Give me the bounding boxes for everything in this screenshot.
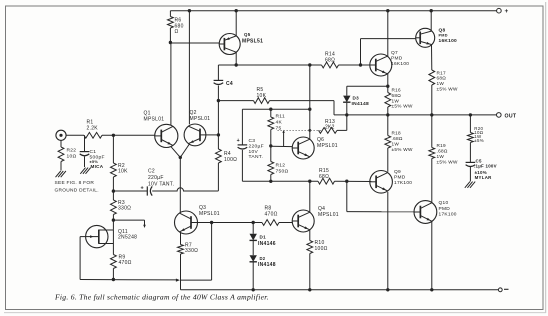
label Q2 [190, 110, 211, 122]
svg-text:D3: D3 [353, 95, 360, 100]
label R19 [437, 143, 458, 165]
wire D3 to OUT line [346, 103, 348, 115]
wire node D down to feedback node [181, 223, 212, 281]
wire R22 to ground [60, 162, 62, 171]
svg-text:1W: 1W [437, 81, 445, 86]
svg-text:10V: 10V [249, 149, 259, 155]
wire bottom negative supply rail [181, 289, 499, 291]
svg-text:750Ω: 750Ω [276, 169, 289, 175]
wire R11 to base node [270, 130, 272, 162]
svg-text:PMD: PMD [439, 206, 451, 212]
label Q4 [318, 206, 339, 218]
label Q1 [144, 111, 165, 123]
wire R4 down to C2 line [217, 163, 219, 191]
resistor R12 [268, 162, 274, 175]
label R6 [175, 18, 184, 36]
svg-text:IN4146: IN4146 [258, 241, 276, 247]
wire R10 to rail [309, 254, 311, 290]
wire C4 to R5 node [217, 86, 219, 101]
svg-text:MPSL01: MPSL01 [317, 143, 338, 149]
label Q8 [439, 28, 458, 44]
resistor R1 [84, 132, 102, 138]
svg-text:16K100: 16K100 [439, 38, 458, 44]
wire input to R1 [66, 134, 84, 136]
transistor Q7 PMD 16K100 [370, 54, 392, 76]
resistor R5 [254, 98, 270, 104]
wire Q6 base wire [271, 145, 293, 147]
svg-text:10K: 10K [118, 169, 128, 175]
svg-text:±5% WW: ±5% WW [437, 87, 458, 92]
svg-text:.1µF 100V: .1µF 100V [474, 163, 497, 168]
node R12 bottom junction [269, 180, 272, 183]
label C5 [474, 158, 497, 180]
svg-text:TANT.: TANT. [249, 154, 264, 160]
wire corner to C4 [217, 65, 219, 80]
svg-text:.68Ω: .68Ω [437, 149, 448, 154]
label Q10 [439, 200, 457, 217]
node R11 top junction [269, 108, 272, 111]
transistor Q6 MPSL01 [292, 137, 314, 159]
node R10 rail junction [308, 288, 311, 291]
node D1 top junction [252, 221, 255, 224]
node Q10 emitter rail junction [430, 288, 433, 291]
label R17 [437, 70, 458, 91]
label Q11 [118, 229, 137, 241]
svg-text:±5% WW: ±5% WW [437, 160, 458, 165]
svg-text:Q9: Q9 [394, 169, 401, 175]
svg-text:68Ω: 68Ω [325, 57, 335, 63]
wire bias line y65 [218, 64, 321, 66]
label Q9 [394, 169, 412, 186]
resistor R8 [262, 220, 279, 226]
svg-text:100Ω: 100Ω [315, 246, 328, 252]
resistor R14 [322, 62, 339, 68]
svg-text:Ω: Ω [175, 29, 179, 35]
wire Q4 emitter to R10 [309, 230, 311, 241]
node R6 bottom / Q5 base junction [169, 41, 172, 44]
wire R19 to Q10 collector [431, 159, 433, 203]
wire Q10 base drop [347, 181, 415, 212]
label R7 [185, 242, 198, 254]
transistor Q4 MPSL01 [292, 210, 314, 232]
terminal OUT [497, 113, 517, 120]
wire R2 to node B [112, 177, 114, 200]
label R3 [118, 200, 131, 212]
svg-text:330Ω: 330Ω [118, 206, 131, 212]
page edge shadow bottom [4, 312, 546, 314]
transistor Q9 PMD 17K100 [370, 171, 393, 194]
diode D1 IN4146 [250, 234, 257, 241]
diode D3 IN4148 [343, 96, 350, 103]
terminal - supply [498, 288, 508, 292]
svg-text:MICA: MICA [91, 164, 104, 169]
resistor R4 [216, 149, 222, 163]
wire R11 wiper stub [282, 130, 284, 147]
svg-text:Q7: Q7 [391, 50, 398, 56]
label Q7 [391, 50, 409, 67]
wire node C feedback stub [113, 220, 144, 225]
node Q7 base / Q8 drop junction [359, 63, 362, 66]
label R18 [392, 131, 413, 153]
arrow feedback into R7 node [176, 279, 180, 282]
ground input [56, 171, 66, 177]
transistor Q10 PMD 17K100 [414, 201, 437, 224]
resistor R18 [385, 136, 391, 149]
svg-text:100Ω: 100Ω [224, 157, 237, 163]
resistor R15 [318, 178, 335, 184]
node Q7 emitter / D3 junction [386, 85, 389, 88]
label D1 [258, 235, 276, 247]
node R5/C4 junction [217, 99, 220, 102]
wire Q1 emitter to tail [171, 147, 180, 158]
node tail junction Q1/Q2 emitters [179, 156, 182, 159]
svg-text:10Ω: 10Ω [67, 153, 77, 159]
label C3 [249, 138, 264, 160]
wire C5 to ground [469, 167, 471, 181]
wire C1 stem [84, 135, 86, 151]
svg-text:IN4148: IN4148 [258, 262, 276, 268]
svg-text:MPSL51: MPSL51 [242, 39, 263, 45]
ground C1 [80, 168, 90, 174]
arrow feedback stub [143, 225, 146, 228]
svg-text:D1: D1 [260, 235, 267, 240]
node Q5 emitter rail junction [235, 9, 238, 12]
wire node D to R8 [212, 222, 262, 224]
node Q5 collector junction [235, 63, 238, 66]
svg-text:1W: 1W [392, 98, 400, 103]
wire R20 to C5 [469, 143, 471, 163]
node bias line junction [308, 108, 311, 111]
svg-text:Q5: Q5 [244, 32, 251, 37]
label R22 [67, 148, 77, 160]
svg-text:16K100: 16K100 [391, 61, 409, 67]
wire OUT line [334, 114, 497, 116]
wire bias line y109 [242, 108, 309, 110]
svg-text:R19: R19 [437, 143, 447, 148]
capacitor C5 [466, 162, 476, 166]
svg-text:GROUND DETAIL.: GROUND DETAIL. [55, 188, 99, 194]
wire R18 to Q9 collector [387, 148, 389, 172]
node Q8 collector rail junction [430, 9, 433, 12]
node R9/feedback junction [112, 278, 115, 281]
resistor R11 [268, 117, 274, 130]
wire C2 left [113, 190, 147, 192]
wire node A to R2 [112, 135, 114, 163]
transistor Q2 MPSL01 [184, 124, 206, 146]
wire Q8 emitter to R17 [431, 45, 433, 70]
node Q2 base junction [217, 133, 220, 136]
capacitor C3 [238, 145, 248, 149]
transistor Q3 MPSL01 [175, 211, 198, 234]
svg-text:IN4148: IN4148 [352, 101, 369, 107]
wire R9 to feedback line [112, 269, 114, 280]
wire top positive supply rail [170, 10, 497, 12]
svg-text:Fig. 6. The full schematic dia: Fig. 6. The full schematic diagram of th… [54, 293, 269, 302]
wire R13 right up [337, 115, 347, 130]
capacitor C1 [80, 152, 90, 156]
svg-text:10K: 10K [257, 93, 267, 99]
wire D1 to D2 [252, 241, 254, 255]
svg-text:1W: 1W [437, 154, 445, 159]
svg-text:C4: C4 [226, 81, 233, 87]
wire Q9 emitter to rail [387, 192, 389, 290]
wire Q3 base to node D [198, 222, 212, 224]
transistor Q5 MPSL51 (PNP) [219, 34, 240, 55]
svg-text:220µF: 220µF [148, 175, 164, 181]
svg-text:Q10: Q10 [439, 200, 449, 206]
wire R16 to OUT line [387, 107, 389, 115]
wire Q3 emitter to R7 [180, 233, 182, 245]
node Q2 collector rail junction [188, 9, 191, 12]
svg-text:D2: D2 [260, 256, 266, 261]
wire D3 branch top [347, 86, 388, 95]
svg-text:17K100: 17K100 [394, 180, 412, 186]
svg-text:C2: C2 [148, 169, 155, 175]
svg-text:R11: R11 [276, 114, 285, 120]
svg-text:68Ω: 68Ω [392, 93, 402, 98]
svg-text:R16: R16 [392, 88, 402, 93]
wire R1 to node A [102, 134, 155, 136]
svg-text:±5% WW: ±5% WW [392, 147, 413, 152]
wire Q4 collector up [309, 181, 311, 212]
node B junction R2/R3/C2 [112, 189, 115, 192]
wire R7 to bottom rail corner [180, 254, 182, 290]
wire C1 to ground [84, 156, 86, 167]
wire Q1 collector up [170, 43, 172, 126]
label R20 [474, 126, 484, 143]
wire Q2 collector up to rail [188, 11, 190, 125]
node Q6 emitter/Q4 collector junction [308, 180, 311, 183]
wire Q7 collector to rail [387, 11, 389, 57]
wire R15 line left [271, 180, 318, 182]
label R10 [315, 240, 328, 252]
svg-text:PMD: PMD [439, 33, 448, 37]
node R17 bottom junction [430, 113, 433, 116]
svg-text:+: + [505, 8, 509, 15]
wire R13 left (dotted) [278, 129, 322, 131]
wire R18 stem [387, 115, 389, 136]
wire Q2 emitter to tail [180, 144, 189, 157]
wire R19 stem [431, 115, 433, 148]
wire C2 right with hop [152, 188, 218, 191]
wire R12 to bottom node [270, 175, 272, 182]
label Q3 [199, 205, 220, 217]
svg-text:±5% WW: ±5% WW [392, 104, 413, 109]
resistor R16 [385, 93, 391, 108]
wire R3 to node C [112, 215, 114, 230]
note ground detail [55, 180, 99, 193]
resistor R3 [111, 200, 117, 215]
input jack J1 [56, 130, 66, 140]
label D3 [352, 95, 369, 107]
svg-text:C3: C3 [249, 138, 256, 144]
label R11 [276, 114, 285, 132]
svg-text:470Ω: 470Ω [119, 260, 132, 266]
wire C3 top stem [241, 109, 243, 145]
svg-text:.68Ω: .68Ω [392, 136, 403, 141]
label C1 [90, 149, 105, 169]
wire R14 to Q7 base [339, 64, 370, 66]
svg-text:2K2: 2K2 [325, 125, 335, 131]
svg-text:MPSL01: MPSL01 [144, 117, 165, 123]
svg-text:MPSL01: MPSL01 [190, 116, 211, 122]
resistor R13 [319, 128, 338, 134]
label R1 [87, 120, 99, 132]
svg-text:C1: C1 [90, 149, 97, 155]
wire Q7 emitter down [387, 74, 389, 93]
wire R8 to Q4 base [279, 222, 293, 224]
svg-text:17K100: 17K100 [439, 211, 457, 217]
svg-text:R12: R12 [276, 163, 286, 169]
page edge shadow right [545, 2, 547, 313]
capacitor C4 [214, 80, 224, 84]
node C junction R3/Q11 drain [112, 218, 115, 221]
label D2 [258, 256, 276, 268]
label C3 plus [237, 138, 240, 144]
wire D2 to bottom rail [252, 262, 254, 289]
svg-text:PMD: PMD [391, 55, 403, 61]
svg-text:OUT: OUT [505, 113, 517, 119]
transistor Q1 MPSL01 [155, 124, 178, 147]
wire Q5 emitter to rail [235, 11, 237, 36]
resistor R7 [178, 245, 184, 255]
caption [54, 293, 269, 302]
wire R20 stem [469, 115, 471, 133]
svg-text:R22: R22 [67, 148, 77, 154]
node R16 bottom junction [386, 113, 389, 116]
resistor R10 [307, 241, 313, 254]
wire tail down to Q3 collector [179, 157, 181, 212]
svg-text:MPSL01: MPSL01 [318, 212, 339, 218]
label R2 [118, 163, 128, 175]
node Q9 emitter rail junction [386, 288, 389, 291]
node Q6 base wire junction [269, 144, 272, 147]
node bias/vertical junction [308, 63, 311, 66]
svg-text:Q2: Q2 [190, 110, 197, 116]
wire Q5 collector down [235, 52, 237, 65]
wire Q5 base line [170, 42, 219, 44]
wire feedback line [80, 279, 178, 281]
label R5 [257, 87, 267, 99]
label Q5 [242, 32, 263, 45]
node D3 bottom junction [345, 113, 348, 116]
label C4 [226, 81, 233, 87]
resistor R22 [58, 147, 64, 162]
node R15 right junction [345, 180, 348, 183]
resistor R19 [429, 148, 435, 159]
ground C5 [465, 182, 475, 188]
wire center vertical upper [309, 65, 311, 139]
svg-text:4K: 4K [276, 120, 283, 126]
node R20 top junction [469, 113, 472, 116]
svg-text:330Ω: 330Ω [185, 248, 198, 254]
wire Q2 base column [217, 101, 219, 149]
node R13 tee junction [308, 129, 311, 132]
wire R17 to OUT line [431, 85, 433, 115]
capacitor C2 [147, 186, 152, 195]
wire R5 line left [218, 100, 253, 102]
svg-text:±5%: ±5% [474, 138, 484, 143]
label R12 [276, 163, 289, 175]
svg-text:MPSL01: MPSL01 [199, 211, 220, 217]
label C2 plus [141, 186, 144, 192]
wire C3 bottom stem [242, 150, 270, 181]
wire jack to R22 [60, 140, 62, 147]
wire Q8 base drop [361, 39, 417, 65]
node D junction Q3 base/R8/D1 [210, 221, 213, 224]
svg-text:MYLAR: MYLAR [475, 175, 493, 180]
svg-text:68Ω: 68Ω [437, 76, 447, 81]
node A junction R1/R2/Q1 base [112, 134, 115, 137]
node Q7 collector rail junction [386, 9, 389, 12]
wire R11 stem [270, 109, 272, 117]
label R4 [224, 151, 237, 163]
svg-text:1W: 1W [392, 142, 400, 147]
wire R5 line right [270, 101, 335, 115]
transistor Q11 (JFET 2N5248) [86, 225, 114, 247]
label Q6 [317, 137, 338, 149]
svg-text:R18: R18 [392, 131, 402, 136]
svg-text:R17: R17 [437, 70, 447, 75]
resistor R9 [111, 255, 117, 269]
terminal + supply [497, 8, 509, 15]
node D2 rail junction [252, 288, 255, 291]
svg-text:10V TANT.: 10V TANT. [148, 181, 174, 187]
label R8 [265, 205, 278, 217]
svg-text:+: + [237, 138, 240, 144]
label R16 [392, 88, 413, 109]
resistor R17 [429, 70, 435, 85]
label C2 [148, 169, 174, 188]
label R15 [319, 168, 329, 180]
diode D2 IN4148 [250, 255, 257, 262]
svg-text:SEE FIG. 8 FOR: SEE FIG. 8 FOR [55, 180, 95, 186]
resistor R2 [111, 163, 117, 177]
svg-text:2N5248: 2N5248 [118, 235, 137, 241]
svg-text:68Ω: 68Ω [319, 174, 329, 180]
svg-text:Q1: Q1 [144, 111, 151, 117]
label R14 [325, 52, 335, 64]
wire D1 stem [252, 223, 254, 234]
svg-text:PMD: PMD [394, 175, 406, 181]
wire Q8 collector to rail [430, 11, 432, 31]
svg-text:2.2K: 2.2K [87, 126, 99, 132]
wire Q11 drain-source column [112, 230, 114, 255]
wire Q2 base to bias column [206, 134, 219, 136]
wire Q10 emitter to rail [431, 221, 433, 289]
wire R15 to Q9 base [335, 180, 372, 182]
resistor R6 [168, 11, 174, 43]
wire Q11 gate loop [80, 237, 86, 280]
resistor R20 [468, 133, 474, 143]
label R13 [325, 119, 335, 131]
svg-text:220µF: 220µF [249, 143, 264, 149]
transistor Q8 PMD 16K100 [416, 28, 435, 47]
label R9 [119, 254, 132, 266]
svg-text:470Ω: 470Ω [265, 211, 278, 217]
